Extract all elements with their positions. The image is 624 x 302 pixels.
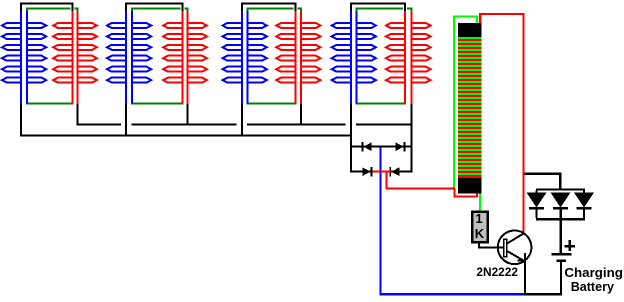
wire diode bank anode rail bbox=[536, 188, 586, 192]
diode D2 (bridge top-right, cathode right) bbox=[395, 142, 405, 151]
transformer T1 core outer loop (black) bbox=[20, 3, 73, 12]
inductor L1 bottom cap (black) bbox=[458, 177, 481, 193]
transformer T4 core inner loop (green) bbox=[356, 8, 413, 105]
svg-text:K: K bbox=[475, 226, 485, 241]
inductor L1 bobbin (green frame) bbox=[453, 16, 478, 188]
resistor R1 value label "1 K" bbox=[475, 211, 485, 241]
transformer T3 secondary winding (red) bbox=[276, 11, 320, 105]
wire diode bank to battery plus bbox=[559, 210, 561, 253]
resistor R1 1K (gray box) bbox=[471, 211, 489, 244]
transformer T3 core outer loop (black) bbox=[241, 3, 297, 12]
transformer T1 core inner loop (green) bbox=[26, 8, 79, 105]
wire bridge right vertical (T4 right terminal down to bridge) bbox=[410, 104, 412, 173]
inductor L1 top cap (black) bbox=[458, 23, 481, 37]
wire base lead (resistor to transistor) bbox=[478, 244, 503, 249]
transformer T4 secondary winding (red) bbox=[386, 11, 431, 105]
wire bridge top rail bbox=[350, 146, 412, 148]
wire coil bottom terminal (green) bbox=[479, 194, 481, 211]
diode D6 (middle, pointing down) bbox=[551, 192, 571, 209]
wire battery minus down bbox=[560, 262, 562, 296]
transformer T4 primary winding (blue) bbox=[332, 11, 376, 105]
svg-text:1: 1 bbox=[475, 211, 482, 226]
wire diode bank cathode rail bbox=[536, 218, 585, 220]
diode D3 (bridge bottom-left, cathode right) bbox=[362, 167, 372, 176]
label 2N2222 bbox=[476, 265, 518, 279]
transformer T2 primary winding (blue) bbox=[107, 11, 151, 105]
wire upper bus y=124.5 (right terminals, with crossover gaps) bbox=[77, 124, 411, 126]
wire T2 right terminal down bbox=[187, 104, 189, 126]
transformer T4 core outer loop (black) bbox=[350, 3, 406, 12]
transformer T3 primary winding (blue) bbox=[223, 11, 267, 105]
wire bridge bottom rail DC positive segment (red) bbox=[372, 171, 391, 173]
wire coil top to collector (red) bbox=[479, 13, 525, 232]
battery plus sign bbox=[564, 240, 574, 251]
diode D7 (right, pointing down) bbox=[574, 192, 594, 218]
inductor L1 stripe area bbox=[458, 37, 481, 177]
wire DC positive output to coil (red) bbox=[386, 173, 478, 198]
wire emitter down bbox=[524, 253, 526, 295]
transformer T2 core inner loop (green) bbox=[131, 8, 189, 105]
battery B1 plates bbox=[551, 253, 571, 262]
transformer T2 core outer loop (black) bbox=[125, 3, 183, 12]
label Charging Battery bbox=[564, 265, 623, 294]
wire lower bus y=135.5 (left terminals) bbox=[20, 135, 352, 137]
wire T3 right terminal down bbox=[300, 104, 302, 126]
wire bridge bottom rail (black parts) bbox=[350, 171, 412, 173]
transformer T1 secondary winding (red) bbox=[53, 11, 97, 105]
diode D4 (bridge bottom-right, cathode left) bbox=[389, 167, 399, 176]
svg-text:Battery: Battery bbox=[571, 279, 615, 294]
transistor Q1 2N2222 (NPN) bbox=[498, 231, 532, 265]
wire collector node to diode bank (black top) bbox=[525, 173, 562, 191]
wire T1 left terminal down bbox=[20, 104, 22, 137]
wire bridge left vertical (T4 left terminal down to bridge) bbox=[350, 104, 352, 173]
wire bottom return (emitter junction to battery minus) bbox=[525, 293, 563, 295]
svg-text:2N2222: 2N2222 bbox=[476, 265, 518, 279]
wire T2 left terminal down bbox=[125, 104, 127, 137]
transformer T3 core inner loop (green) bbox=[247, 8, 303, 105]
wire T3 left terminal down bbox=[241, 104, 243, 137]
wire bridge DC negative output (blue) bbox=[380, 148, 525, 296]
transformer T1 primary winding (blue) bbox=[2, 11, 46, 105]
svg-text:Charging: Charging bbox=[564, 265, 623, 280]
transformer T2 secondary winding (red) bbox=[163, 11, 207, 105]
diode D5 (left, pointing down) bbox=[527, 192, 547, 218]
wire T1 right terminal down bbox=[77, 104, 79, 126]
diode D1 (bridge top-left, cathode left) bbox=[362, 142, 372, 151]
